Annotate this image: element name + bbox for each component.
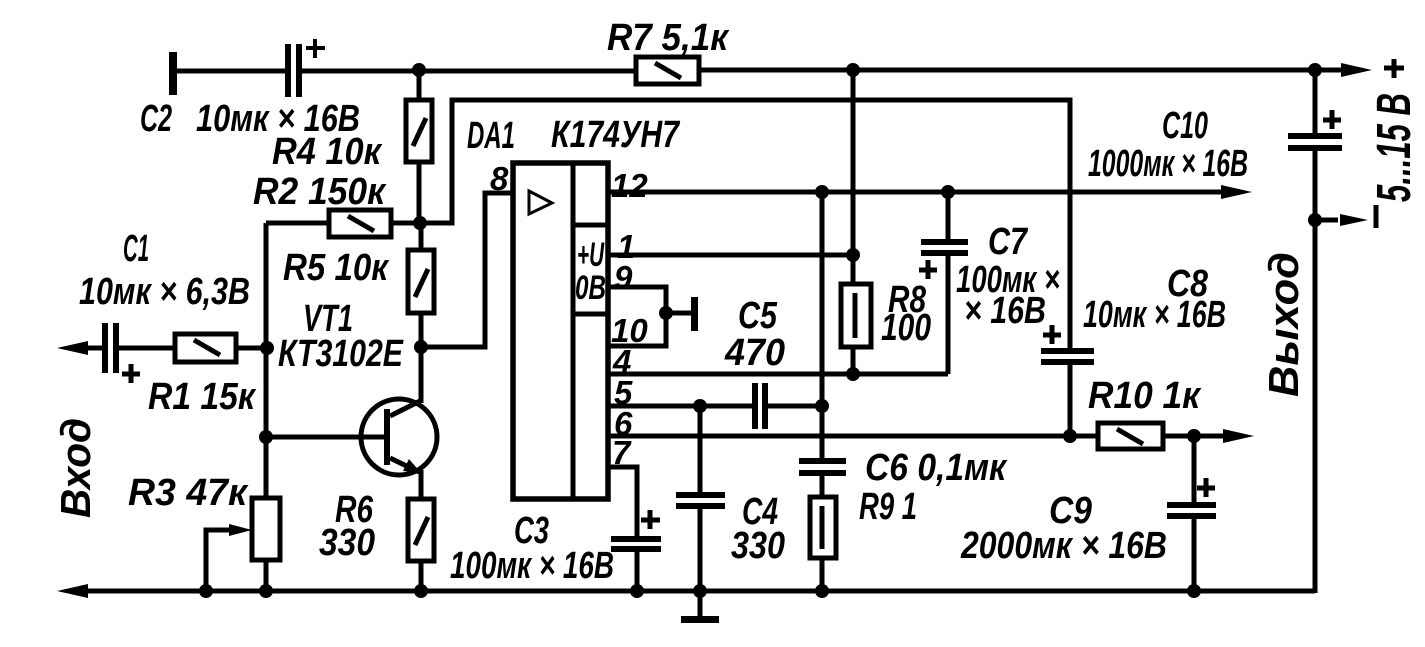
ground bbox=[681, 591, 719, 623]
wire wiper of R3 bbox=[206, 530, 230, 591]
node pin1 junction bbox=[846, 248, 860, 262]
op-amp DA1 body bbox=[513, 163, 608, 499]
svg-text:C7: C7 bbox=[988, 221, 1028, 263]
arrow pin 12 line bbox=[1221, 185, 1252, 199]
minus sign supply bbox=[1374, 205, 1379, 228]
wire C4 branch vertical x700 bbox=[698, 406, 703, 494]
svg-text:1000мк × 16В: 1000мк × 16В bbox=[1088, 143, 1248, 185]
node C8-pin6 junction bbox=[1063, 429, 1077, 443]
wire stub supply minus bbox=[1315, 218, 1338, 223]
resistor R9 bbox=[810, 497, 836, 558]
wire pin12 node vertical x822 bbox=[820, 192, 825, 458]
wire R5 to collector node bbox=[419, 313, 424, 347]
node R2-R4-R5 junction bbox=[413, 216, 427, 230]
svg-text:R9 1: R9 1 bbox=[859, 486, 917, 528]
wire left vertical x266 bbox=[264, 223, 269, 498]
capacitor C1 bbox=[102, 323, 140, 383]
wire R10 to output arrow bbox=[1163, 434, 1226, 439]
wire R4 to node bbox=[417, 162, 422, 223]
node wiper ground junction bbox=[199, 584, 213, 598]
wire stub common terminal bbox=[666, 311, 692, 316]
svg-text:C6 0,1мк: C6 0,1мк bbox=[865, 447, 1008, 489]
wire R2 to node bbox=[391, 221, 421, 226]
arrow output bbox=[1223, 429, 1254, 443]
node R10-C9 junction bbox=[1187, 429, 1201, 443]
svg-text:0В: 0В bbox=[575, 269, 606, 307]
wire C7 to pin4 line bbox=[946, 256, 951, 374]
node R3 ground junction bbox=[259, 584, 273, 598]
wire C6 to R9 bbox=[820, 476, 825, 497]
wire emitter VT1 bbox=[419, 470, 424, 499]
arrow supply plus bbox=[1341, 63, 1372, 77]
svg-text:5...15 В: 5...15 В bbox=[1368, 93, 1421, 202]
svg-text:R3 47к: R3 47к bbox=[128, 472, 249, 514]
resistor R5 bbox=[408, 250, 434, 313]
arrow bottom rail left bbox=[57, 584, 88, 598]
wire input to C1 bbox=[88, 346, 103, 351]
wire pin 1 line bbox=[608, 253, 853, 258]
node supply minus junction bbox=[1308, 213, 1322, 227]
capacitor C5 bbox=[752, 383, 768, 429]
wire pins 9-10 loop bbox=[608, 287, 666, 346]
svg-text:R1 15к: R1 15к bbox=[148, 376, 257, 418]
wire pin 4 line bbox=[608, 372, 948, 377]
svg-text:R5 10к: R5 10к bbox=[283, 247, 390, 289]
svg-text:К174УН7: К174УН7 bbox=[551, 114, 680, 156]
node C7 top junction bbox=[941, 185, 955, 199]
wire collector VT1 bbox=[419, 347, 424, 403]
svg-text:C1: C1 bbox=[123, 228, 149, 270]
node C2-R4 junction bbox=[412, 63, 426, 77]
svg-text:Выход: Выход bbox=[1260, 252, 1307, 397]
node supply junction bbox=[1308, 63, 1322, 77]
wire right border vertical top bbox=[1313, 70, 1318, 134]
svg-text:R10 1к: R10 1к bbox=[1088, 375, 1202, 417]
transistor VT1 bbox=[361, 399, 437, 475]
wire C1 to R1 bbox=[119, 346, 175, 351]
wire pin 5 line left bbox=[608, 404, 752, 409]
arrow input left bbox=[57, 341, 88, 355]
svg-text:КТ3102Е: КТ3102Е bbox=[278, 333, 404, 375]
node R7-R8 junction bbox=[846, 63, 860, 77]
wire node to R5 bbox=[419, 223, 424, 250]
capacitor C2 bbox=[285, 39, 325, 97]
svg-text:10мк × 16В: 10мк × 16В bbox=[1083, 294, 1226, 336]
capacitor C8 bbox=[1041, 325, 1094, 365]
node pin12 output junction bbox=[815, 185, 829, 199]
wire pin 12 output line bbox=[608, 190, 1224, 195]
wire R10 node to C9 bbox=[1192, 436, 1197, 504]
node R6 ground junction bbox=[414, 584, 428, 598]
wire R9 to bottom rail bbox=[820, 558, 825, 591]
resistor R8 bbox=[841, 284, 871, 347]
wire pin 5 line right bbox=[768, 404, 822, 409]
wire top rail right bbox=[699, 68, 1345, 73]
capacitor C4 bbox=[676, 492, 725, 509]
capacitor C9 bbox=[1167, 478, 1216, 519]
wire pin 6 line bbox=[608, 434, 1098, 439]
wire base VT1 bbox=[266, 435, 385, 440]
node R5-collector junction bbox=[414, 340, 428, 354]
svg-text:DA1: DA1 bbox=[467, 115, 515, 157]
node pin5-C4 junction bbox=[693, 399, 707, 413]
node C3 ground junction bbox=[630, 584, 644, 598]
plus sign supply bbox=[1384, 59, 1404, 78]
input terminal of C2 top line bbox=[169, 52, 177, 95]
wire R2 line bbox=[266, 221, 329, 226]
svg-text:R2 150к: R2 150к bbox=[253, 171, 387, 213]
svg-text:9: 9 bbox=[614, 259, 633, 296]
svg-text:2000мк × 16В: 2000мк × 16В bbox=[960, 525, 1167, 567]
wire C4 to bottom rail bbox=[698, 509, 703, 591]
svg-text:100: 100 bbox=[881, 307, 931, 349]
wire pin 7 to C3 bbox=[608, 467, 637, 536]
resistor R10 bbox=[1098, 423, 1163, 449]
wire top rail left bbox=[177, 69, 286, 74]
svg-text:330: 330 bbox=[319, 522, 375, 564]
wire pin 8 loop bbox=[421, 193, 513, 347]
wire C2 node to R4 bbox=[417, 70, 422, 100]
terminal bar pins 9-10 bbox=[691, 297, 698, 331]
capacitor C6 bbox=[799, 458, 846, 476]
node R9 ground junction bbox=[815, 584, 829, 598]
svg-text:C2: C2 bbox=[140, 98, 172, 140]
wire C3 to bottom rail bbox=[635, 552, 640, 591]
svg-text:470: 470 bbox=[724, 332, 785, 374]
node C9 ground junction bbox=[1187, 584, 1201, 598]
wire C9 to bottom rail bbox=[1192, 519, 1197, 591]
arrow wiper R3 bbox=[229, 524, 252, 536]
capacitor C10 bbox=[1288, 110, 1342, 151]
resistor R7 bbox=[636, 57, 699, 84]
wire right border vertical bottom bbox=[1313, 151, 1318, 593]
potentiometer R3 bbox=[252, 498, 280, 560]
node C4 ground junction bbox=[693, 584, 707, 598]
resistor R1 bbox=[175, 334, 236, 362]
svg-text:12: 12 bbox=[611, 167, 648, 204]
wire C8 to pin6 line bbox=[1068, 365, 1073, 436]
svg-text:C5: C5 bbox=[738, 295, 778, 337]
svg-text:10мк × 6,3В: 10мк × 6,3В bbox=[79, 271, 250, 313]
capacitor C7 bbox=[919, 239, 968, 279]
svg-text:R4 10к: R4 10к bbox=[272, 131, 383, 173]
svg-text:100мк × 16В: 100мк × 16В bbox=[450, 545, 614, 587]
wire R8 to pin4 line bbox=[851, 347, 856, 374]
wire R6 to bottom rail bbox=[419, 561, 424, 591]
svg-text:7: 7 bbox=[612, 434, 632, 471]
svg-text:× 16В: × 16В bbox=[964, 290, 1046, 332]
resistor R6 bbox=[408, 499, 434, 561]
capacitor C3 bbox=[611, 510, 661, 552]
wire bottom rail bbox=[88, 589, 1315, 594]
node R1-base junction bbox=[260, 341, 274, 355]
resistor R4 bbox=[406, 100, 432, 162]
svg-text:330: 330 bbox=[731, 525, 785, 567]
node R8-pin4 junction bbox=[846, 367, 860, 381]
svg-text:Вход: Вход bbox=[52, 418, 99, 518]
svg-text:8: 8 bbox=[490, 160, 509, 197]
wire top rail mid bbox=[302, 69, 636, 74]
svg-text:R7 5,1к: R7 5,1к bbox=[607, 17, 730, 59]
wire R3 to bottom rail bbox=[264, 560, 269, 591]
wire R7 node vertical x853 bbox=[851, 70, 856, 284]
node pins 9-10 junction bbox=[659, 306, 673, 320]
wire C7 branch vertical x948 bbox=[946, 192, 951, 241]
node base wire junction bbox=[259, 430, 273, 444]
wire R1 to node bbox=[236, 346, 267, 351]
resistor R2 bbox=[329, 210, 391, 237]
svg-text:C10: C10 bbox=[1162, 105, 1208, 147]
node C5-C6 junction bbox=[815, 399, 829, 413]
arrow supply minus bbox=[1340, 214, 1368, 226]
wire second rail over IC bbox=[421, 100, 1070, 350]
